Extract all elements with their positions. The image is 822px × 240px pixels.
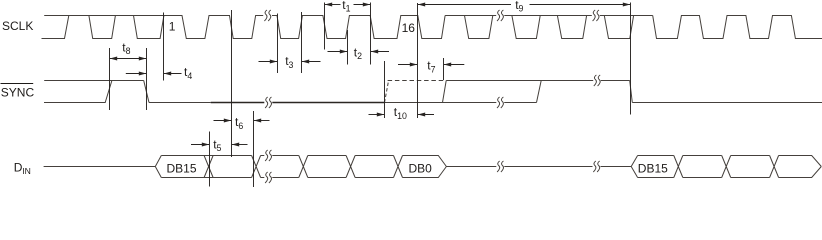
break symbol DIN cell bottom (265, 172, 268, 183)
DIN crossover X4 (346, 156, 355, 178)
break symbol DIN mid 2 (593, 161, 596, 172)
DIN crossover X5 (394, 156, 403, 178)
t6 measure arrows (214, 120, 232, 122)
DIN cell lines left group bottom (161, 167, 446, 178)
svg-text:IN: IN (22, 166, 31, 176)
DIN crossover X3 (299, 156, 308, 178)
SYNC optional early rise (dashed) (385, 81, 389, 103)
t4 measure arrow into SCLK edge 1 (164, 73, 182, 75)
DIN idle line mid (446, 166, 631, 168)
signal label SYNC overline (1, 83, 34, 85)
marker line t2 left (SCLK rising) (347, 30, 349, 65)
break symbol DIN mid 1 (497, 161, 500, 172)
marker line t8 right (SYNC falling) (146, 48, 148, 110)
t8 measure arrows (110, 58, 146, 60)
SYNC low line right (632, 102, 822, 104)
DIN crossover X7 (722, 156, 731, 178)
svg-text:16: 16 (402, 21, 416, 35)
DIN cell lines right group bottom (638, 167, 822, 178)
DIN crossover X8 (770, 156, 779, 178)
marker line t3 left (SCLK falling) (277, 14, 279, 74)
svg-text:1: 1 (169, 20, 176, 34)
svg-text:SYNC: SYNC (1, 85, 35, 99)
DIN idle line left (44, 166, 156, 168)
svg-text:DB15: DB15 (167, 162, 197, 176)
break symbol SYNC high (594, 75, 597, 86)
SYNC low continuation (385, 102, 537, 104)
SYNC low line mid (149, 102, 211, 104)
svg-text:DB0: DB0 (409, 162, 433, 176)
DIN crossover X2 (252, 156, 261, 178)
t10 measure arrows (369, 114, 385, 116)
DIN crossover X1 (204, 156, 213, 178)
break symbol SYNC low 2 (497, 97, 500, 108)
t5 measure arrows (191, 144, 209, 146)
t9 measure arrows (418, 4, 511, 6)
marker line t6 right (253, 111, 255, 187)
SYNC pulse falling edge (144, 81, 149, 103)
svg-text:SCLK: SCLK (2, 19, 33, 33)
marker line SCLK edge 16 (t9 left) (417, 3, 419, 118)
DIN bus opening left (155, 156, 161, 178)
DIN cell lines right group top (638, 156, 822, 167)
SYNC low line left (44, 81, 112, 103)
SCLK clock waveform (42, 16, 822, 39)
t4 measure arrow into SYNC fall (126, 73, 146, 75)
marker line SCLK edge 1 (t4 right) (163, 13, 165, 81)
SYNC low line emphasized (211, 102, 385, 104)
svg-text:DB15: DB15 (638, 162, 668, 176)
SYNC high rail left (44, 80, 144, 82)
t1 measure arrows (325, 4, 341, 6)
t2 measure arrows (328, 51, 348, 53)
marker line t10 left (SYNC dashed rise) (384, 61, 386, 118)
break symbol SCLK frame (264, 10, 267, 21)
break symbol SCLK t9 span 1 (497, 10, 500, 21)
SCLK idle-high top rail left (44, 15, 164, 17)
t7 measure arrows (398, 64, 417, 66)
t3 measure arrows (259, 61, 278, 63)
SYNC high line (446, 80, 630, 82)
marker line t9 right (SYNC falling) (630, 3, 632, 115)
DIN bus opening right (631, 156, 637, 178)
break symbol DIN cell top (265, 150, 268, 161)
marker line t7 right (SYNC rise) (443, 58, 445, 80)
SYNC late rising edge (537, 81, 542, 103)
DIN crossover X6 (674, 156, 683, 178)
SYNC falling edge (end of t9) (630, 81, 633, 103)
DIN cell lines left group top (161, 156, 446, 167)
marker line t1 left (SCLK falling) (324, 3, 326, 50)
marker line t5 left (data valid) (209, 132, 211, 187)
SCLK idle-high top rail right (t9 span) (445, 15, 653, 17)
break symbol SYNC low 1 (265, 97, 268, 108)
break symbol SCLK t9 span 2 (593, 10, 596, 21)
marker line t3 right (SCLK rising) (301, 12, 303, 73)
marker line t1/t2 right (SCLK falling) (370, 3, 372, 65)
marker line SCLK falling edge 2 (t5/t6) (231, 10, 233, 157)
SYNC solid rising edge (t7) (443, 81, 447, 103)
marker line t8 left (SYNC rising) (109, 48, 111, 110)
